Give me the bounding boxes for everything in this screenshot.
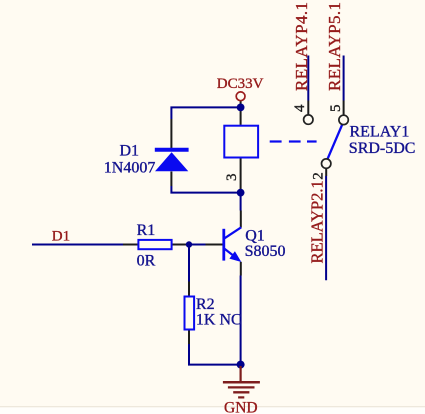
svg-text:5: 5: [328, 105, 344, 113]
svg-text:RELAYP5.1: RELAYP5.1: [325, 2, 344, 91]
svg-text:RELAY1: RELAY1: [350, 123, 410, 140]
svg-text:3: 3: [224, 174, 240, 182]
svg-text:0R: 0R: [137, 252, 156, 269]
svg-text:R1: R1: [137, 222, 156, 239]
svg-text:GND: GND: [224, 399, 258, 414]
svg-text:4: 4: [292, 104, 308, 112]
svg-text:S8050: S8050: [245, 243, 286, 260]
svg-text:D1: D1: [52, 229, 70, 245]
svg-text:RELAYP4.1: RELAYP4.1: [292, 2, 311, 91]
svg-text:DC33V: DC33V: [217, 76, 264, 92]
svg-text:SRD-5DC: SRD-5DC: [349, 140, 416, 157]
svg-text:1N4007: 1N4007: [104, 160, 156, 177]
svg-text:Q1: Q1: [245, 227, 265, 244]
svg-text:D1: D1: [120, 143, 140, 160]
svg-text:RELAYP2.1: RELAYP2.1: [308, 180, 327, 263]
svg-text:2: 2: [310, 172, 326, 180]
svg-text:1K NC: 1K NC: [196, 311, 242, 328]
